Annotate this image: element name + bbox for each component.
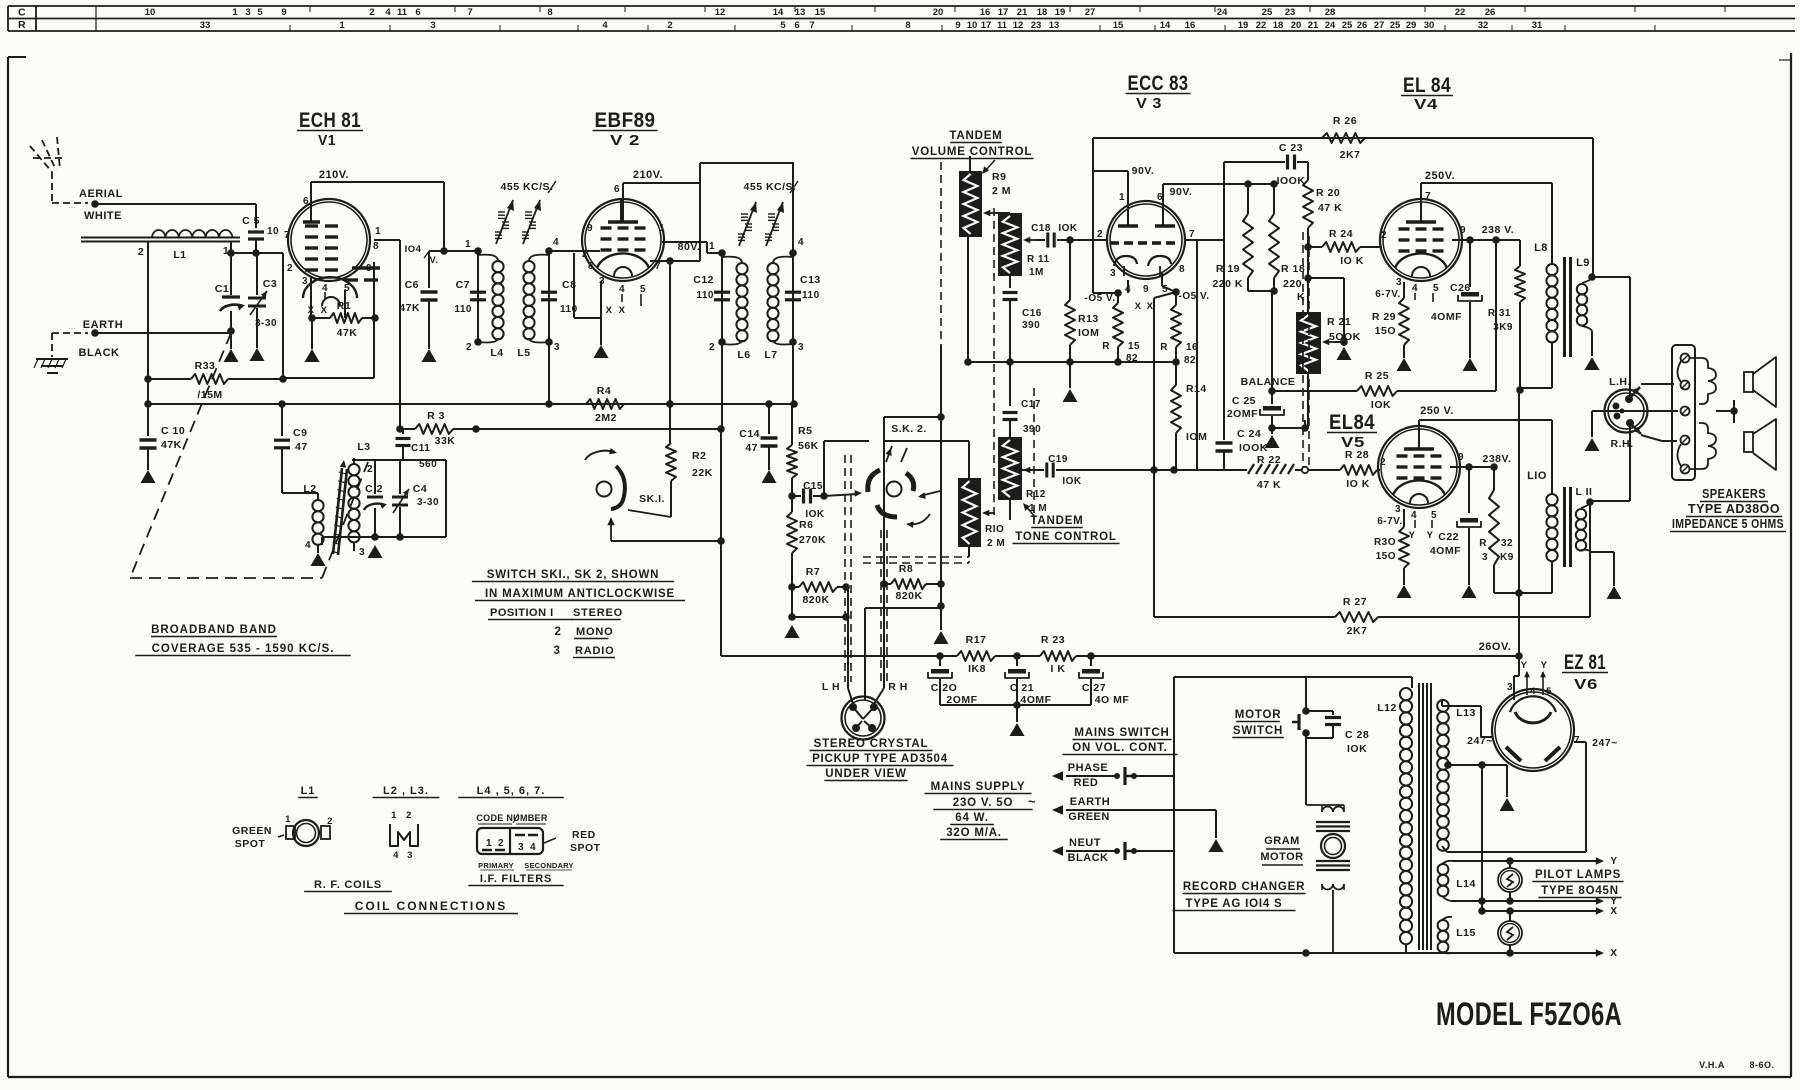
svg-text:7: 7 [1189,229,1195,240]
wire AVC rail [144,400,798,408]
svg-text:PILOT LAMPS: PILOT LAMPS [1535,869,1621,881]
svg-text:IMPEDANCE 5 OHMS: IMPEDANCE 5 OHMS [1672,517,1784,531]
wire 250V rail V4 [1421,183,1552,257]
capacitor C7 [454,251,486,315]
wire tone to V5 grid [1150,466,1218,474]
wire 260V to V6 [1514,656,1519,700]
svg-text:82: 82 [1126,353,1138,364]
coil L7 [764,257,793,361]
wire R19 R18 top [1163,180,1278,188]
wire L14 bottom Y [1452,896,1618,907]
tube V1 electrodes [303,218,380,306]
svg-text:2: 2 [667,20,672,31]
svg-text:C18: C18 [1031,223,1051,234]
svg-text:19: 19 [1238,20,1249,31]
label 104V [405,244,439,265]
pilot lamp 2 [1498,907,1522,957]
svg-text:21: 21 [1308,20,1319,31]
resistor R20 [1303,162,1342,312]
ground earth lead [1209,839,1224,852]
tube V6 pin labels [1507,660,1552,697]
label switch text [472,569,685,658]
svg-text:V 3: V 3 [1136,95,1162,112]
trimmer core L6 [738,202,757,246]
coil L11 [1576,486,1594,552]
svg-text:V.H.A: V.H.A [1699,1060,1725,1070]
svg-text:R 26: R 26 [1333,115,1357,127]
svg-text:3: 3 [302,276,308,287]
ground R21 wiper [1337,342,1352,360]
svg-text:110: 110 [696,290,714,301]
svg-text:25: 25 [1390,20,1401,31]
svg-text:20: 20 [1291,20,1302,31]
svg-text:R12: R12 [1026,489,1046,500]
tube V2 cathode pins [574,253,641,345]
wire V2 pin1 out [662,242,726,257]
svg-text:MODEL F5ZO6A: MODEL F5ZO6A [1436,996,1622,1032]
rf coil symbol [278,814,333,846]
wire 250V rail V5 [1419,420,1552,487]
svg-text:2: 2 [406,810,412,821]
wire SK2 left [824,441,869,496]
wire HT to L9 node [1592,138,1594,277]
wire HT top rail [1093,137,1593,139]
svg-text:29: 29 [1406,20,1417,31]
resistor R23 [995,634,1091,675]
svg-text:X: X [1610,906,1617,917]
svg-text:11: 11 [997,20,1008,31]
trimmer C3 [248,253,277,348]
svg-text:4: 4 [393,850,399,861]
label 247 right [1574,735,1618,749]
earth ground symbol [34,333,88,373]
pot R21 [1296,312,1361,374]
coil L8 [1520,242,1558,388]
wire L1 pin2 down [147,241,149,404]
svg-text:IOM: IOM [1078,327,1099,339]
svg-text:2 M: 2 M [987,538,1005,549]
svg-text:R 31: R 31 [1488,308,1511,319]
svg-text:21: 21 [1017,7,1028,18]
resistor R25 [1272,370,1496,411]
svg-text:IO K: IO K [1346,478,1370,490]
svg-text:L II: L II [1576,486,1593,498]
bus -05V [967,358,1180,366]
wire C24 rail [1188,162,1224,440]
wire R25 to plate [1495,240,1497,391]
svg-text:SK.I.: SK.I. [639,493,665,505]
svg-text:STEREO: STEREO [573,607,623,619]
svg-text:C 10: C 10 [161,425,185,437]
svg-text:2: 2 [287,263,293,274]
switch SK1 [585,448,671,541]
svg-text:3: 3 [1507,682,1513,693]
svg-text:SWITCH: SWITCH [1233,725,1283,737]
resistor R2 [666,429,713,517]
svg-text:110: 110 [802,290,820,301]
svg-text:C19: C19 [1048,454,1068,465]
svg-text:TANDEM: TANDEM [949,130,1002,142]
wire V5 bottom rail [1494,589,1552,597]
svg-text:V.: V. [430,255,439,265]
svg-text:8: 8 [373,241,379,252]
label tandem tone [1013,503,1120,544]
wire R10 top [884,441,969,478]
svg-text:COVERAGE 535 - 1590 KC/S.: COVERAGE 535 - 1590 KC/S. [152,643,335,655]
svg-text:C22: C22 [1438,531,1459,543]
label coil connections [344,899,518,914]
coil L5 [517,255,549,359]
coil L3 [348,441,373,558]
svg-text:22: 22 [1256,20,1267,31]
svg-text:14: 14 [773,7,784,18]
svg-text:455 KC/S.: 455 KC/S. [744,181,797,193]
svg-text:560: 560 [419,459,437,470]
svg-text:8: 8 [905,20,910,31]
label code number [476,813,548,824]
trimmer core L7 [765,202,784,246]
capacitor C17 [1003,362,1042,437]
svg-text:5: 5 [1546,686,1552,697]
resistor R14 [1170,362,1207,474]
coil L13 [1437,700,1476,852]
wire R21 bottom [1301,374,1309,432]
wire V1 plate to R3 [374,240,404,433]
svg-text:R: R [1160,342,1168,353]
svg-text:IOOK: IOOK [1277,175,1306,187]
svg-text:5: 5 [257,7,263,18]
svg-text:13: 13 [795,7,806,18]
label 455kcs first [501,181,556,193]
tube V3 pin labels [1097,192,1195,312]
svg-text:26: 26 [1357,20,1368,31]
svg-text:RECORD CHANGER: RECORD CHANGER [1183,881,1305,893]
svg-text:C16: C16 [1022,308,1042,319]
wire grid V1 [227,241,283,257]
switch neut [1105,842,1174,860]
svg-text:1M: 1M [1029,267,1044,278]
svg-text:X: X [321,305,328,316]
svg-text:R 23: R 23 [1041,634,1065,646]
svg-text:10: 10 [145,7,156,18]
coil L6 [722,257,751,361]
wire SK2 top [884,413,945,460]
svg-text:TYPE AD38OO: TYPE AD38OO [1688,502,1780,516]
resistor R15 [1102,296,1140,364]
speaker RH [1690,419,1776,470]
wire balance node [1241,291,1296,395]
svg-text:X: X [619,305,626,316]
svg-text:C14: C14 [739,428,760,440]
svg-text:455 KC/S.: 455 KC/S. [501,181,554,193]
svg-text:GREEN: GREEN [1068,811,1110,823]
svg-text:56K: 56K [798,440,819,452]
svg-text:14: 14 [1160,20,1171,31]
tube V5 electrodes [1393,427,1445,503]
svg-text:6: 6 [415,7,420,18]
wire V2 fb box [700,162,793,164]
pot R9 [959,156,1011,237]
svg-text:7: 7 [467,7,472,18]
svg-text:EL 84: EL 84 [1403,74,1451,97]
wire C9 to L2 [282,492,318,494]
label 67V V5 [1377,516,1402,527]
svg-text:Y: Y [1521,660,1528,671]
svg-text:C3: C3 [263,278,277,290]
svg-text:C 5: C 5 [242,215,260,227]
svg-text:2: 2 [555,626,562,638]
svg-text:ECH 81: ECH 81 [299,109,361,132]
svg-text:~: ~ [1028,794,1036,809]
svg-text:7: 7 [284,230,290,241]
svg-text:R7: R7 [806,566,820,578]
svg-text:SECONDARY: SECONDARY [524,861,573,870]
wire V5 plate out [1450,463,1498,471]
svg-text:5: 5 [780,20,786,31]
svg-text:L5: L5 [517,347,530,359]
svg-text:32: 32 [1501,538,1513,549]
svg-text:R13: R13 [1078,313,1099,325]
svg-text:V5: V5 [1341,434,1365,451]
svg-text:9: 9 [366,263,372,274]
svg-text:2: 2 [466,342,472,353]
svg-text:2: 2 [138,246,144,258]
coil L4 [478,255,504,359]
tube V6 label [1562,651,1608,693]
wire V3 pin1 up [1093,138,1128,293]
capacitor C26 [1431,240,1482,358]
svg-text:18: 18 [1273,20,1284,31]
svg-text:23: 23 [1031,20,1042,31]
wire V2 pin7 right [650,260,700,262]
label 67V V4 [1375,289,1400,300]
core mains transformer [1419,683,1431,950]
wire L11 to R27 [1589,501,1591,617]
svg-text:32O M/A.: 32O M/A. [946,827,1002,839]
wire pickup LH rail [848,587,853,704]
svg-text:C 27: C 27 [1082,682,1106,694]
svg-text:2K7: 2K7 [1347,625,1368,637]
wire R12 bottom [1009,500,1011,520]
svg-text:10: 10 [967,20,978,31]
svg-text:-O5 V.: -O5 V. [1179,291,1210,302]
svg-text:3: 3 [430,20,435,31]
capacitor C1 variable [215,253,245,335]
wire left rail down [721,342,722,656]
svg-text:MONO: MONO [576,626,613,638]
svg-text:C13: C13 [800,274,821,286]
svg-text:4: 4 [798,237,804,248]
svg-text:IOK: IOK [1371,399,1391,411]
wire X line [1478,906,1617,917]
svg-text:PRIMARY: PRIMARY [478,861,514,870]
svg-text:4: 4 [602,20,608,31]
svg-text:2: 2 [369,7,374,18]
svg-text:I.F. FILTERS: I.F. FILTERS [480,873,552,885]
label phase red [1052,762,1108,789]
label 90V second [1170,186,1193,198]
label green spot [232,825,272,850]
wire 210V rail V2 [623,163,700,261]
svg-text:C 23: C 23 [1279,142,1303,154]
wire SK1 to rail [611,537,725,545]
coil L15 [1438,917,1476,954]
tube V4 electrodes [1395,200,1447,276]
svg-text:L8: L8 [1534,242,1548,254]
wire pickup centre [865,602,945,700]
svg-text:IK8: IK8 [968,663,986,675]
svg-text:47 K: 47 K [1257,479,1281,491]
node EARTH BLACK [79,319,124,359]
svg-text:1: 1 [709,241,715,252]
svg-text:6-7V.: 6-7V. [1377,516,1402,527]
svg-text:4: 4 [305,540,311,551]
svg-text:47 K: 47 K [1318,202,1342,214]
wire plug gnd [1592,411,1611,437]
svg-text:12: 12 [1013,20,1024,31]
dashed gang balance [1303,232,1309,468]
svg-text:220: 220 [1283,278,1302,290]
dashed gang RH [881,530,887,682]
svg-text:EARTH: EARTH [83,319,123,331]
wire V6 pin7 [1447,742,1586,852]
tube V1 label [297,109,363,149]
svg-text:MAINS SUPPLY: MAINS SUPPLY [931,781,1026,793]
coil L14 [1438,861,1476,901]
svg-text:V 2: V 2 [610,132,640,149]
svg-text:2 M: 2 M [992,185,1011,197]
svg-text:TANDEM: TANDEM [1030,515,1083,527]
wire V3 pin7 down [1186,240,1197,470]
svg-text:IOK: IOK [1062,476,1082,487]
svg-text:R: R [1479,538,1487,549]
svg-text:3: 3 [359,547,365,558]
label 247 left [1467,735,1493,747]
svg-text:238V.: 238V. [1483,453,1512,465]
svg-text:16: 16 [980,7,991,18]
svg-text:C11: C11 [411,443,430,454]
ground below L9 [1585,357,1600,370]
wire grid bus [475,428,477,430]
ground below pin3 V1 [305,349,320,362]
label motor switch [1232,709,1284,738]
svg-text:250 V.: 250 V. [1420,405,1454,417]
svg-text:4: 4 [385,7,391,18]
resistor R30 [1374,527,1409,585]
if filter box [477,828,556,854]
svg-text:GRAM: GRAM [1264,835,1300,847]
svg-text:L9: L9 [1576,257,1590,269]
svg-text:6-7V.: 6-7V. [1375,289,1400,300]
svg-text:9: 9 [1143,284,1149,295]
resistor R31 [1488,266,1525,394]
pot R11 [998,213,1050,278]
ground bus stub [1063,362,1078,402]
resistor R27 [1154,596,1590,637]
svg-text:2: 2 [1381,230,1387,241]
svg-text:MAINS SWITCH: MAINS SWITCH [1074,727,1169,739]
capacitor C14 [739,404,777,470]
capacitor C22 [1430,467,1481,585]
label rf coils [304,879,392,892]
IF1 right rail [545,237,560,353]
svg-text:R 22: R 22 [1257,454,1281,466]
svg-text:1: 1 [375,226,381,237]
svg-text:R 24: R 24 [1329,228,1353,240]
svg-text:R6: R6 [799,519,813,531]
ground below plug [1585,438,1600,451]
svg-text:6: 6 [794,20,799,31]
svg-text:5: 5 [640,284,646,295]
svg-text:I K: I K [1051,663,1066,675]
svg-text:WHITE: WHITE [84,210,122,222]
svg-text:19: 19 [1055,7,1066,18]
label -05V left [1085,293,1116,304]
ground below C22 [1462,585,1477,598]
wire plug LH to strip [1641,383,1674,385]
svg-text:R2: R2 [692,450,706,462]
svg-text:16: 16 [1185,20,1196,31]
svg-text:TYPE AG IOI4 S: TYPE AG IOI4 S [1185,898,1282,910]
tube V4 envelope [1380,199,1462,281]
svg-text:31: 31 [1532,20,1543,31]
switch phase [1105,767,1174,785]
capacitor C20 [928,652,978,706]
svg-text:L3: L3 [357,441,370,453]
svg-text:32: 32 [1478,20,1489,31]
svg-text:247~: 247~ [1592,737,1618,749]
svg-text:8: 8 [588,261,594,272]
aerial rod with coil L1 [81,230,240,261]
svg-text:22K: 22K [692,467,713,479]
wire V2 grid in [549,250,600,252]
svg-text:1: 1 [285,814,291,825]
svg-text:3: 3 [554,342,560,353]
svg-text:47: 47 [745,442,758,454]
svg-text:47K: 47K [399,302,420,314]
resistor R7 [788,566,850,606]
svg-text:L12: L12 [1377,702,1397,714]
svg-text:L4: L4 [490,347,503,359]
svg-text:9: 9 [1460,225,1466,236]
pickup plug [822,681,908,740]
svg-text:90V.: 90V. [1170,186,1193,198]
svg-text:210V.: 210V. [319,169,349,181]
svg-text:L15: L15 [1456,927,1476,939]
wire V2 pin7 down [666,257,674,429]
svg-text:C 28: C 28 [1345,729,1369,741]
svg-text:2: 2 [709,342,715,353]
wire centre gnd [940,584,942,630]
svg-text:7: 7 [809,20,814,31]
ground below C14 [762,470,777,483]
svg-text:26OV.: 26OV. [1479,641,1512,653]
svg-text:24: 24 [1217,7,1228,18]
trimmer core L5 [522,200,541,244]
svg-text:30: 30 [1424,20,1435,31]
svg-text:R5: R5 [798,425,812,437]
svg-text:210V.: 210V. [633,169,663,181]
wire L5 pin3 down [548,342,550,404]
dashed gang LH [845,455,851,682]
wire cathode gnd [311,318,313,349]
capacitor C15 [792,481,862,520]
svg-text:V4: V4 [1414,96,1438,113]
svg-text:3-30: 3-30 [255,318,277,329]
capacitor C13 [785,274,821,301]
ground heater ct [1500,798,1515,811]
tube V6 electrodes [1506,696,1560,761]
